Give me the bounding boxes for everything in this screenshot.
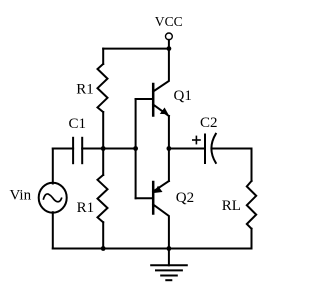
- resistor R1 (lower): [98, 175, 108, 222]
- wire base column vertical: [135, 99, 137, 198]
- wire top rail to R1 upper: [102, 49, 104, 64]
- transistor Q1 collector: [153, 49, 169, 92]
- node output junction: [167, 146, 172, 151]
- source Vin circle: [39, 183, 67, 213]
- node lower R1 bottom junction: [101, 246, 106, 251]
- wire RL top: [251, 149, 253, 182]
- wire Vin bottom: [52, 212, 54, 248]
- capacitor C2 curved plate: [211, 134, 215, 163]
- wire output node to Q2 emitter: [168, 149, 170, 182]
- wire output node to C2: [169, 148, 205, 150]
- capacitor C1 right plate: [81, 138, 83, 163]
- transistor Q1 emitter with arrow: [153, 105, 169, 117]
- svg-text:Vin: Vin: [10, 188, 32, 204]
- wire VCC terminal to top rail: [168, 40, 170, 49]
- VCC terminal circle: [166, 33, 173, 40]
- svg-text:VCC: VCC: [155, 14, 183, 29]
- capacitor C1 left plate: [72, 138, 74, 163]
- capacitor C2 straight plate: [204, 135, 206, 164]
- node R1 input junction: [101, 146, 106, 151]
- ground: [151, 249, 187, 281]
- resistor R1 (upper): [98, 64, 108, 112]
- transistor Q2 base bar: [152, 182, 155, 214]
- svg-text:R1: R1: [77, 200, 95, 216]
- wire R1 upper to input node: [102, 112, 104, 149]
- transistor Q2 collector: [153, 205, 169, 249]
- svg-text:C1: C1: [69, 116, 87, 132]
- wire Q1 emitter to output node: [168, 116, 170, 149]
- resistor RL: [247, 181, 256, 229]
- source Vin sine wave: [44, 194, 62, 202]
- wire Vin to C1: [53, 148, 73, 150]
- svg-text:C2: C2: [200, 115, 218, 131]
- svg-text:R1: R1: [76, 82, 94, 98]
- wire lower R1 bottom: [102, 222, 104, 248]
- svg-text:RL: RL: [222, 198, 241, 214]
- wire RL bottom: [251, 229, 253, 249]
- wire Vin top: [52, 149, 54, 184]
- svg-text:Q1: Q1: [174, 88, 192, 104]
- C2 plus sign: [193, 139, 200, 141]
- transistor Q1 base bar: [152, 84, 155, 116]
- wire lower R1 top: [102, 149, 104, 176]
- svg-text:Q2: Q2: [176, 190, 194, 206]
- node ground junction: [167, 246, 172, 251]
- transistor Q2 emitter with arrow: [153, 181, 169, 192]
- wire Q1 base: [136, 98, 152, 100]
- wire C1 to base column: [82, 148, 135, 150]
- node top rail junction: [167, 46, 172, 51]
- wire bottom rail: [53, 248, 252, 250]
- node base column junction: [133, 146, 138, 151]
- wire C2 to RL: [212, 148, 252, 150]
- wire top rail: [103, 48, 169, 50]
- wire Q2 base: [136, 197, 152, 199]
